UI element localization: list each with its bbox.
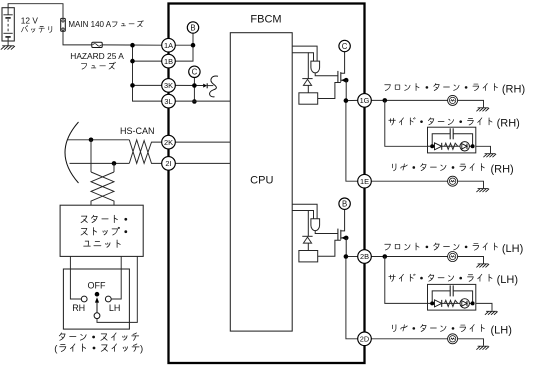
junction feed 1B bbox=[130, 59, 135, 64]
wire unit to RH contact bbox=[70, 256, 81, 299]
svg-text:12 V: 12 V bbox=[21, 15, 39, 25]
terminal 2K bbox=[162, 135, 176, 149]
wire node to 2D bbox=[346, 257, 358, 339]
svg-text:B: B bbox=[190, 23, 195, 32]
wire 2B to front turn light LH bbox=[371, 257, 483, 264]
ground rear turn RH bbox=[476, 189, 489, 193]
wire node to 1E bbox=[346, 101, 358, 182]
terminal 1B bbox=[162, 54, 176, 68]
label fuse HAZARD bbox=[81, 62, 115, 69]
svg-text:MAIN 140 A: MAIN 140 A bbox=[68, 20, 111, 29]
svg-text:2D: 2D bbox=[360, 335, 369, 344]
terminal 2I bbox=[162, 157, 176, 171]
ground side turn RH bbox=[483, 154, 496, 158]
svg-text:1E: 1E bbox=[360, 177, 369, 186]
wire 2D to rear turn light LH bbox=[371, 339, 483, 346]
wire 1G to front turn light RH bbox=[371, 100, 483, 107]
fuse HAZARD 25A bbox=[92, 42, 102, 47]
junction front/side LH bbox=[383, 254, 388, 259]
terminal 1A bbox=[162, 38, 176, 52]
wire CAN-L branch down bbox=[113, 163, 115, 172]
side turn light RH LED unit bbox=[428, 127, 476, 153]
svg-text:LH: LH bbox=[109, 303, 121, 313]
wire CAN-H branch down bbox=[90, 140, 92, 172]
wire node C column bbox=[193, 78, 195, 102]
wire side RH to ground bbox=[476, 146, 491, 153]
junction feed 1A bbox=[130, 43, 135, 48]
terminal 3L bbox=[162, 94, 176, 108]
connector pigtail at 3K bbox=[203, 76, 218, 97]
lamp rear turn LH bbox=[448, 334, 458, 344]
svg-text:C: C bbox=[192, 68, 198, 77]
svg-text:3K: 3K bbox=[164, 81, 173, 90]
svg-text:(LH): (LH) bbox=[491, 325, 512, 337]
ground side turn LH bbox=[485, 311, 498, 315]
node C bbox=[189, 66, 200, 77]
label start bbox=[81, 215, 127, 222]
label batteri bbox=[21, 26, 51, 33]
contact RH bbox=[81, 296, 87, 302]
wire 1A to node B column bbox=[175, 44, 193, 46]
svg-text:OFF: OFF bbox=[88, 281, 106, 291]
twisted pair HS-CAN bbox=[129, 140, 162, 164]
svg-text:(LH): (LH) bbox=[502, 243, 523, 255]
label turn switch bbox=[59, 333, 138, 340]
svg-text:2B: 2B bbox=[360, 252, 369, 261]
wire battery to MAIN fuse bbox=[8, 4, 63, 19]
switch common terminal bbox=[94, 313, 100, 319]
wire CAN-H bbox=[68, 139, 130, 141]
label stop bbox=[81, 227, 127, 235]
junction node C 3L bbox=[192, 99, 197, 104]
label rear turn light RH bbox=[392, 164, 484, 171]
junction CAN-H bbox=[89, 138, 94, 143]
start-stop unit box bbox=[60, 205, 143, 256]
wire HAZARD fuse to 1A bbox=[102, 44, 162, 46]
terminal 2B bbox=[358, 250, 372, 264]
svg-text:FBCM: FBCM bbox=[250, 14, 281, 26]
svg-text:C: C bbox=[342, 42, 348, 51]
terminal 3K bbox=[162, 79, 176, 93]
terminal 1E bbox=[358, 174, 372, 188]
wire 3L to CPU bbox=[175, 100, 230, 102]
svg-text:(RH): (RH) bbox=[502, 84, 525, 96]
CPU box bbox=[230, 33, 292, 331]
svg-text:B: B bbox=[342, 200, 347, 209]
terminal 2D bbox=[358, 332, 372, 346]
node B supply bbox=[339, 198, 350, 209]
svg-text:1B: 1B bbox=[164, 57, 173, 66]
switch lever bbox=[95, 297, 99, 313]
svg-text:1G: 1G bbox=[360, 96, 370, 105]
wire 2K to CPU bbox=[169, 141, 231, 143]
svg-text:2I: 2I bbox=[165, 159, 171, 168]
wire MAIN fuse to HAZARD fuse bbox=[63, 31, 92, 45]
wire CAN-L bbox=[70, 162, 130, 164]
lamp front turn LH bbox=[448, 252, 458, 262]
lamp rear turn RH bbox=[448, 176, 458, 186]
wire harness continuation arc bbox=[65, 122, 79, 183]
label fuse MAIN bbox=[112, 20, 143, 26]
junction 2B node bbox=[344, 254, 349, 259]
ground front turn LH bbox=[476, 264, 489, 268]
wire feed to 1B bbox=[133, 60, 162, 62]
svg-text:2K: 2K bbox=[164, 138, 173, 147]
label front turn light LH bbox=[385, 243, 498, 250]
svg-text:(LH): (LH) bbox=[497, 274, 518, 286]
wire 3K to connector bbox=[175, 84, 203, 86]
side turn light LH LED unit bbox=[428, 284, 476, 310]
svg-text:(RH): (RH) bbox=[491, 164, 514, 176]
svg-text:HAZARD 25 A: HAZARD 25 A bbox=[70, 51, 124, 61]
wire to side turn light LH bbox=[385, 257, 428, 304]
wire node to 2B bbox=[346, 256, 358, 258]
svg-text:1A: 1A bbox=[164, 41, 173, 50]
wire unit to LH contact bbox=[111, 256, 121, 299]
wire feed bus to 3L bbox=[133, 45, 162, 101]
wire 2I to CPU bbox=[169, 162, 231, 164]
contact LH bbox=[105, 296, 111, 302]
svg-text:HS-CAN: HS-CAN bbox=[120, 126, 155, 136]
ground front turn RH bbox=[476, 108, 489, 112]
label front turn light RH bbox=[385, 84, 498, 91]
junction CAN-L bbox=[112, 161, 117, 166]
turn switch box bbox=[63, 269, 129, 329]
wire node to 1G bbox=[346, 99, 358, 101]
wire switch common return bbox=[97, 256, 137, 322]
wire 1E to rear turn light RH bbox=[371, 181, 483, 188]
wire to side turn light RH bbox=[385, 100, 428, 146]
driver LH high-side FET bbox=[292, 204, 348, 262]
FBCM module box bbox=[169, 4, 365, 364]
svg-text:): ) bbox=[140, 344, 143, 355]
twisted pair to start-stop unit bbox=[91, 172, 114, 205]
svg-text:3L: 3L bbox=[164, 97, 172, 106]
battery 12V bbox=[2, 8, 14, 46]
junction front/side RH bbox=[383, 98, 388, 103]
label unit bbox=[84, 240, 121, 247]
driver RH high-side FET bbox=[292, 46, 348, 104]
fuse MAIN 140A bbox=[61, 18, 66, 31]
svg-text:(RH): (RH) bbox=[497, 118, 520, 130]
label light switch bbox=[60, 344, 139, 352]
wire feed to 3K bbox=[133, 84, 162, 86]
svg-text:CPU: CPU bbox=[250, 174, 273, 186]
wire 1B to node B bbox=[175, 33, 193, 61]
ground battery bbox=[1, 46, 15, 50]
terminal 1G bbox=[358, 94, 372, 108]
lamp front turn RH bbox=[448, 95, 458, 105]
svg-text:RH: RH bbox=[72, 303, 85, 313]
junction 1G node bbox=[344, 98, 349, 103]
ground rear turn LH bbox=[476, 346, 489, 350]
junction feed 3K bbox=[130, 83, 135, 88]
label side turn light RH bbox=[389, 118, 492, 125]
wire side LH to ground bbox=[476, 303, 492, 311]
junction node C 3K bbox=[192, 83, 197, 88]
label side turn light LH bbox=[389, 274, 492, 281]
node B bbox=[187, 22, 198, 33]
junction node B column bbox=[191, 43, 196, 48]
contact OFF bbox=[95, 292, 100, 297]
node C supply bbox=[339, 40, 350, 51]
label rear turn light LH bbox=[392, 325, 484, 332]
